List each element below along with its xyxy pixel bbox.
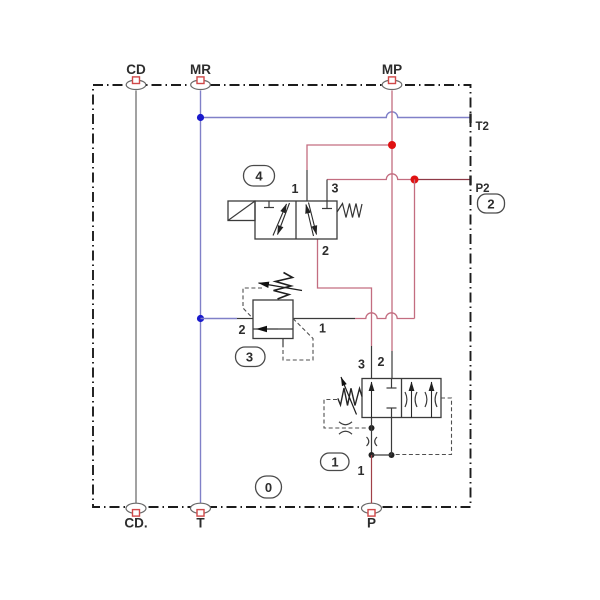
svg-text:1: 1 (292, 182, 299, 196)
junction dot P2 (411, 176, 419, 184)
balloon 1 (321, 453, 350, 471)
junction dot MP-P2 branch (388, 141, 396, 149)
valve U3 internal flow arrow (257, 328, 279, 330)
junction dots bottom (369, 452, 375, 458)
svg-text:3: 3 (358, 358, 365, 372)
svg-text:P: P (367, 516, 376, 531)
wire valve U1 bottom to P junction with orifice (367, 418, 378, 456)
balloon 2 (external port group) (478, 194, 505, 213)
valve U1 pilot dashed right (395, 398, 452, 455)
valve U1 proportional spring (338, 388, 362, 406)
wire P2 junction down to valve 3 port 1 level (414, 180, 416, 319)
enclosure border (dash-dot manifold boundary) (93, 85, 471, 507)
valve U4 left cell flow arrows (273, 203, 290, 236)
svg-text:CD: CD (126, 62, 146, 77)
svg-text:CD.: CD. (124, 516, 147, 531)
wire P2 horizontal with bump over MP line (327, 174, 415, 180)
port MP top (382, 62, 402, 90)
valve U4 port 3 stub with blocked symbol (322, 180, 332, 209)
svg-text:1: 1 (358, 464, 365, 478)
svg-text:3: 3 (246, 350, 253, 365)
valve U3 spring adjust arrow (259, 283, 303, 291)
svg-text:3: 3 (332, 182, 339, 196)
svg-text:MP: MP (382, 62, 402, 77)
valve U4 right cell flow arrows (306, 203, 317, 237)
wire P line (371, 455, 373, 504)
svg-text:T: T (196, 516, 205, 531)
valve U4: 3/2 solenoid valve body (255, 201, 337, 239)
port CD top (126, 62, 146, 90)
valve U3: pressure reducing valve body (253, 300, 293, 339)
valve U1 right cell orifice arcs (405, 392, 437, 407)
port MR top (190, 62, 211, 90)
valve U1 spring adjust arrow (341, 377, 357, 415)
valve U3 drain dashed right (283, 319, 313, 361)
valve U1 blocked port bottom (387, 408, 397, 418)
junction dot pilot (369, 425, 375, 431)
wire valve 3 port 1 horizontal with two bumps (355, 313, 415, 319)
balloon 4 (244, 166, 275, 187)
junction MR dot lower (197, 315, 204, 322)
valve U4 solenoid actuator (228, 201, 255, 221)
wire blue MR to T2 with crossover bump (201, 112, 471, 118)
svg-text:2: 2 (322, 244, 329, 258)
balloon 3 (236, 347, 266, 367)
wire MP vertical (red) (391, 91, 393, 352)
valve U4 blocked port left cell (264, 201, 274, 208)
svg-text:1: 1 (319, 322, 326, 336)
valve U1 right cell flow arrows (412, 382, 432, 418)
balloon 0 (256, 476, 282, 498)
svg-text:MR: MR (190, 62, 211, 77)
node P2 tick and label (471, 176, 490, 196)
valve U1 left cell flow arrow (371, 382, 373, 418)
port CD. bottom (124, 503, 147, 530)
wire bottom connection (372, 454, 392, 456)
wire valve 4 port 2 down to valve 1 port 3 (318, 240, 372, 347)
wire MR-T vertical line (blue) (200, 91, 202, 504)
svg-text:2: 2 (487, 197, 494, 212)
valve U3 adjustable spring (274, 273, 293, 300)
valve U3 bottom drain stub (282, 339, 284, 348)
svg-text:T2: T2 (476, 121, 489, 133)
node T2 tick and label (471, 114, 489, 134)
valve U1 pilot dashed left with orifice (324, 400, 368, 435)
wire blue to valve 3 port 2 (201, 318, 238, 320)
wire CD vertical line (135, 91, 137, 504)
port P bottom (362, 503, 382, 530)
svg-text:1: 1 (331, 455, 338, 470)
svg-text:P2: P2 (476, 183, 490, 195)
svg-text:2: 2 (239, 323, 246, 337)
svg-text:2: 2 (378, 355, 385, 369)
svg-text:0: 0 (265, 480, 272, 495)
port T bottom (191, 503, 211, 530)
junction MR dot upper (197, 114, 204, 121)
valve U1: flow regulator body (362, 379, 441, 418)
valve U4 return spring (337, 204, 362, 218)
wire MP junction to valve 4 port 1 (307, 145, 392, 170)
valve U1 blocked port top (387, 379, 397, 389)
svg-text:4: 4 (255, 169, 263, 184)
valve U3 pilot line dashed left (243, 288, 262, 318)
